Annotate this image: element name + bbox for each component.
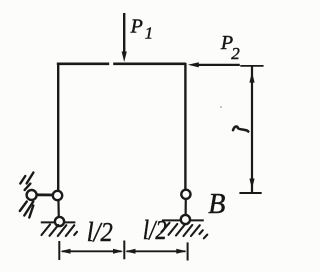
left support horizontal link	[34, 193, 56, 196]
dimension l down arrowhead	[249, 179, 254, 189]
left support wall pin circle	[27, 190, 37, 200]
right column	[184, 63, 186, 190]
dimension l vertical line	[251, 67, 253, 193]
bottom dimension left segment l/2	[60, 249, 123, 254]
left support roller circle	[55, 217, 64, 226]
right support vertical link	[185, 198, 187, 216]
dimension l bottom tick	[239, 192, 261, 194]
left support vertical link	[57, 198, 60, 218]
left support wall hatching lower	[20, 202, 34, 218]
load P2 arrow	[188, 62, 240, 67]
svg-text:P: P	[130, 15, 143, 37]
left support pin circle at column base	[53, 191, 62, 200]
bottom dimension right segment l/2	[125, 249, 186, 254]
beam (top member)	[57, 62, 186, 65]
right support roller circle	[181, 215, 190, 224]
dimension l top tick	[240, 65, 263, 67]
bottom dimension left tick	[58, 241, 60, 260]
svg-text:l/2: l/2	[87, 217, 113, 247]
svg-text:B: B	[208, 189, 225, 220]
svg-text:1: 1	[145, 24, 154, 43]
left support ground line	[41, 221, 76, 223]
label P1	[130, 15, 154, 42]
label P2	[220, 32, 240, 63]
label l (handwritten squiggle)	[233, 126, 248, 131]
bottom dimension center tick	[123, 241, 125, 260]
bottom dimension right tick	[187, 242, 189, 260]
right support ground line	[162, 219, 204, 221]
left support wall hatching upper	[20, 173, 33, 191]
right support pin circle at column base	[181, 190, 190, 199]
left support ground hatching	[42, 225, 78, 237]
load P1 arrow	[122, 13, 127, 62]
left column	[57, 63, 59, 191]
svg-text:l/2: l/2	[143, 215, 167, 245]
svg-text:2: 2	[231, 44, 240, 63]
speck	[220, 106, 222, 108]
dimension l up arrowhead	[249, 72, 254, 83]
right support ground hatching	[162, 223, 208, 239]
